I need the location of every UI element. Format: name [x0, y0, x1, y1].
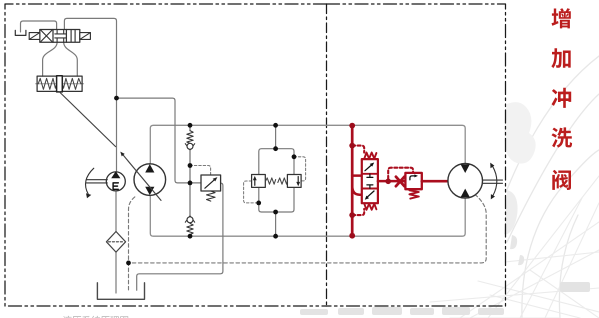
junction: check column on line B: [188, 234, 193, 239]
wire: pilot supply from valve top-right to junction and charge pump: [64, 18, 116, 172]
junction: red pilot top node: [349, 143, 355, 149]
variable displacement arrow of pump: [123, 154, 161, 200]
caption bottom (cut off): [63, 316, 128, 318]
servo cylinder C1 body: [37, 76, 82, 91]
wire: charge pressure branch to relief column: [117, 98, 202, 183]
charge pump P2: [106, 172, 125, 191]
red branch to valve port lower: [352, 186, 362, 195]
mechanical linkage to pump swashplate: [59, 92, 115, 147]
wire: main loop line B (bottom edge): [150, 196, 465, 237]
wire: case drain from pump (dashed): [129, 197, 135, 292]
servo cylinder C1 piston: [57, 76, 63, 92]
motor output shaft: [483, 180, 503, 183]
drive shaft: [86, 180, 107, 183]
wire: valve top-left port to tank: [21, 21, 57, 32]
wire: pilot line to relief valve RV1 (dashed): [190, 166, 211, 175]
junction: bridge tap on line B: [273, 234, 278, 239]
main pump P1: [134, 164, 166, 196]
relief valve RV1: [201, 175, 221, 191]
junction: red pilot bottom node: [349, 212, 355, 218]
bridge pilot left (dashed): [244, 181, 259, 203]
junction: RV1 pilot tap: [188, 163, 193, 168]
solenoid left: [29, 33, 40, 40]
tank T2 (main reservoir): [97, 283, 144, 300]
tank T1 (pilot valve drain): [15, 30, 26, 35]
wire: case drain from motor to tank (dashed): [129, 194, 487, 263]
valve V1 left position (crossed flow): [41, 30, 52, 41]
left system boundary frame: [5, 4, 327, 306]
hydraulic motor M1: [448, 164, 483, 199]
flushing relief valve RV2: [405, 173, 421, 189]
flushing valve spring top: [364, 153, 376, 159]
crossover relief bridge rails: [259, 149, 294, 175]
bridge springs: [266, 178, 276, 184]
flushing valve spring bottom: [364, 203, 376, 209]
junction: red tap on line A: [349, 123, 355, 129]
directional valve V1 body: [40, 30, 80, 43]
red pilot loop to relief RV2 (dashed): [388, 168, 413, 179]
caption: 增加冲洗阀 (vertical red): [551, 8, 572, 190]
junction: red tap on line B: [349, 233, 355, 239]
flushing valve out line with orifice X: [378, 180, 406, 183]
red pilot bottom (dashed): [352, 209, 364, 215]
junction: flushing valve outlet node: [385, 179, 391, 185]
flushing valve FV body: [362, 159, 378, 203]
crossover relief valve VL: [252, 175, 266, 188]
boundary divider line: [326, 4, 328, 306]
red line to motor: [422, 180, 448, 183]
wire: check/relief column: [189, 125, 191, 236]
wire: main loop line A (top edge): [150, 125, 465, 164]
check valve CV2: [185, 216, 194, 222]
RED flushing valve assembly: [352, 125, 448, 236]
junction: VL pilot node: [256, 201, 261, 206]
filter F1: [106, 232, 125, 253]
wire: relief drain to tank: [137, 183, 223, 290]
red pilot top (dashed): [352, 146, 364, 153]
junction: VR pilot node: [292, 154, 297, 159]
RV2 internal arrow: [410, 176, 415, 180]
flushing valve FV bottom position arrow: [367, 191, 374, 197]
junction: check column on line A: [188, 123, 193, 128]
check valve CV1: [187, 131, 193, 144]
wire: charge pump suction: [115, 190, 117, 231]
flushing valve FV top position arrow: [365, 165, 372, 171]
wire: filter to tank: [115, 252, 117, 293]
crossover relief valve VR: [287, 175, 301, 188]
valve V1 right position (straight flow): [71, 30, 75, 41]
valve V1 centre position (blocked ports): [55, 30, 66, 43]
servo cylinder C1 centreline: [36, 83, 84, 85]
WATERMARK: [506, 56, 599, 318]
junction: bridge bottom node: [273, 210, 278, 215]
red tap line across loop: [351, 125, 354, 236]
servo cylinder C1 springs: [38, 78, 56, 89]
motor rotation arrow (bidirectional): [493, 166, 497, 195]
RV2 spring: [409, 190, 418, 198]
flushing valve FV centre blocked: [367, 174, 373, 188]
junction: charge feed node: [188, 181, 193, 186]
shaft rotation arrow: [86, 168, 94, 194]
wire: bridge drops to loop lines: [275, 125, 277, 236]
junction: pilot supply node: [114, 96, 119, 101]
red branch to valve port upper: [352, 174, 362, 177]
junction: drain line node: [126, 261, 131, 266]
solenoid right: [80, 33, 91, 40]
wire: valve bottom ports to servo cylinder: [43, 42, 78, 76]
junction: bridge top node: [273, 146, 278, 151]
junction: bridge tap on line A: [273, 123, 278, 128]
right system boundary frame: [327, 4, 506, 306]
bridge pilot right (dashed): [294, 157, 306, 181]
